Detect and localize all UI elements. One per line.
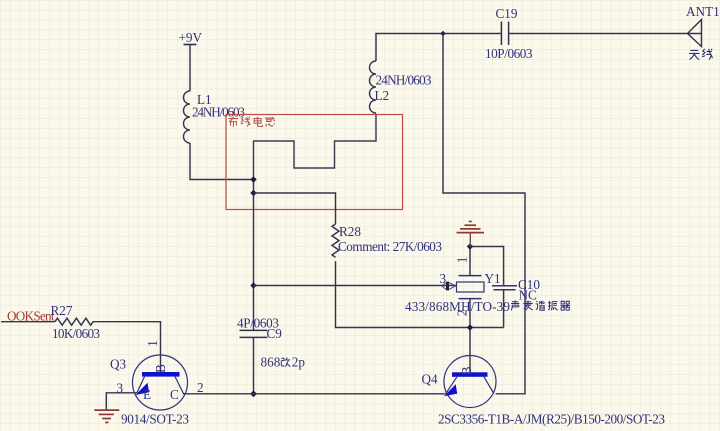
wire C19 to antenna bbox=[509, 33, 687, 35]
svg-text:1: 1 bbox=[454, 257, 469, 264]
svg-text:C19: C19 bbox=[496, 6, 518, 21]
wire Q3 collector to Q4 emitter bbox=[183, 393, 445, 395]
resistor R27 bbox=[55, 318, 93, 325]
junction C (Y1 pin3 node) bbox=[250, 282, 256, 288]
capacitor C19 bbox=[501, 22, 508, 46]
wire L1 bottom to junction bbox=[190, 143, 254, 180]
transistor Q3 bbox=[110, 340, 204, 426]
svg-text:1: 1 bbox=[145, 340, 160, 347]
wire Y1 pin2 / Q4 base bbox=[469, 299, 471, 373]
junction D bbox=[250, 390, 257, 397]
wire L2 top to C19 bbox=[376, 34, 501, 62]
wire meander trace (layout inductor) bbox=[254, 114, 377, 180]
antenna ANT1 bbox=[688, 20, 702, 47]
red box bbox=[226, 115, 403, 210]
svg-text:868: 868 bbox=[261, 355, 281, 370]
inductor L1 bbox=[184, 91, 191, 143]
wire R27 to Q3 base bbox=[93, 322, 161, 372]
wire junction B to R28 bbox=[254, 193, 336, 224]
transistor Q4 bbox=[422, 356, 666, 427]
ground (Q3 emitter) bbox=[94, 410, 119, 422]
junction F (Y1 pin1 node) bbox=[467, 243, 473, 249]
svg-text:2SC3356-T1B-A/JM(R25)/B150-200: 2SC3356-T1B-A/JM(R25)/B150-200/SOT-23 bbox=[438, 412, 665, 427]
resistor R28 bbox=[332, 224, 339, 257]
wire C9 bottom to junction D bbox=[253, 337, 255, 393]
svg-text:ANT1: ANT1 bbox=[686, 4, 720, 19]
wire R28 bottom to Q4 base node bbox=[336, 261, 504, 327]
wire junction A down (L1 node) bbox=[253, 180, 255, 331]
svg-text:10P/0603: 10P/0603 bbox=[485, 46, 533, 61]
svg-text:E: E bbox=[143, 387, 151, 402]
SAW resonator Y1 bbox=[405, 247, 510, 317]
wire Y1 pin1 to C10 bbox=[470, 247, 504, 286]
svg-text:24NH/0603: 24NH/0603 bbox=[192, 105, 245, 120]
svg-text:3: 3 bbox=[440, 271, 447, 286]
svg-text:Y1: Y1 bbox=[485, 271, 501, 286]
red label 布线电感 bbox=[228, 117, 274, 127]
svg-text:2: 2 bbox=[197, 380, 204, 395]
svg-text:+9V: +9V bbox=[179, 30, 203, 45]
svg-text:Q4: Q4 bbox=[422, 372, 439, 387]
svg-text:2: 2 bbox=[454, 310, 469, 317]
svg-text:R27: R27 bbox=[51, 303, 73, 318]
svg-text:R28: R28 bbox=[339, 224, 361, 239]
svg-text:C: C bbox=[170, 387, 179, 402]
junction A bbox=[250, 176, 256, 182]
svg-text:Q3: Q3 bbox=[110, 357, 127, 372]
wire Q3 emitter to ground bbox=[106, 393, 137, 410]
wire from left edge to R27 bbox=[1, 321, 55, 323]
power port +9V bbox=[184, 45, 197, 92]
svg-text:L2: L2 bbox=[375, 88, 390, 103]
wire from top junction down to Q4 collector bbox=[443, 34, 525, 394]
svg-text:NC: NC bbox=[519, 288, 538, 303]
capacitor C9 bbox=[240, 330, 268, 337]
svg-text:2p: 2p bbox=[292, 355, 306, 370]
wire C10 bottom to base node bbox=[503, 290, 505, 328]
junction B bbox=[250, 190, 256, 196]
svg-text:B: B bbox=[153, 364, 168, 373]
junction on top wire bbox=[440, 31, 445, 36]
svg-text:Comment: 27K/0603: Comment: 27K/0603 bbox=[338, 239, 442, 254]
svg-text:24NH/0603: 24NH/0603 bbox=[376, 73, 432, 88]
svg-text:C9: C9 bbox=[267, 326, 283, 341]
junction E (Q4 base node) bbox=[467, 324, 473, 330]
svg-text:9014/SOT-23: 9014/SOT-23 bbox=[121, 412, 189, 427]
svg-text:B: B bbox=[459, 366, 474, 375]
ground (above Y1) bbox=[457, 222, 485, 247]
capacitor C10 bbox=[492, 286, 517, 290]
inductor L2 bbox=[370, 61, 376, 113]
svg-text:10K/0603: 10K/0603 bbox=[52, 326, 100, 341]
wire junction C to Y1 pin 3 bbox=[254, 285, 457, 287]
